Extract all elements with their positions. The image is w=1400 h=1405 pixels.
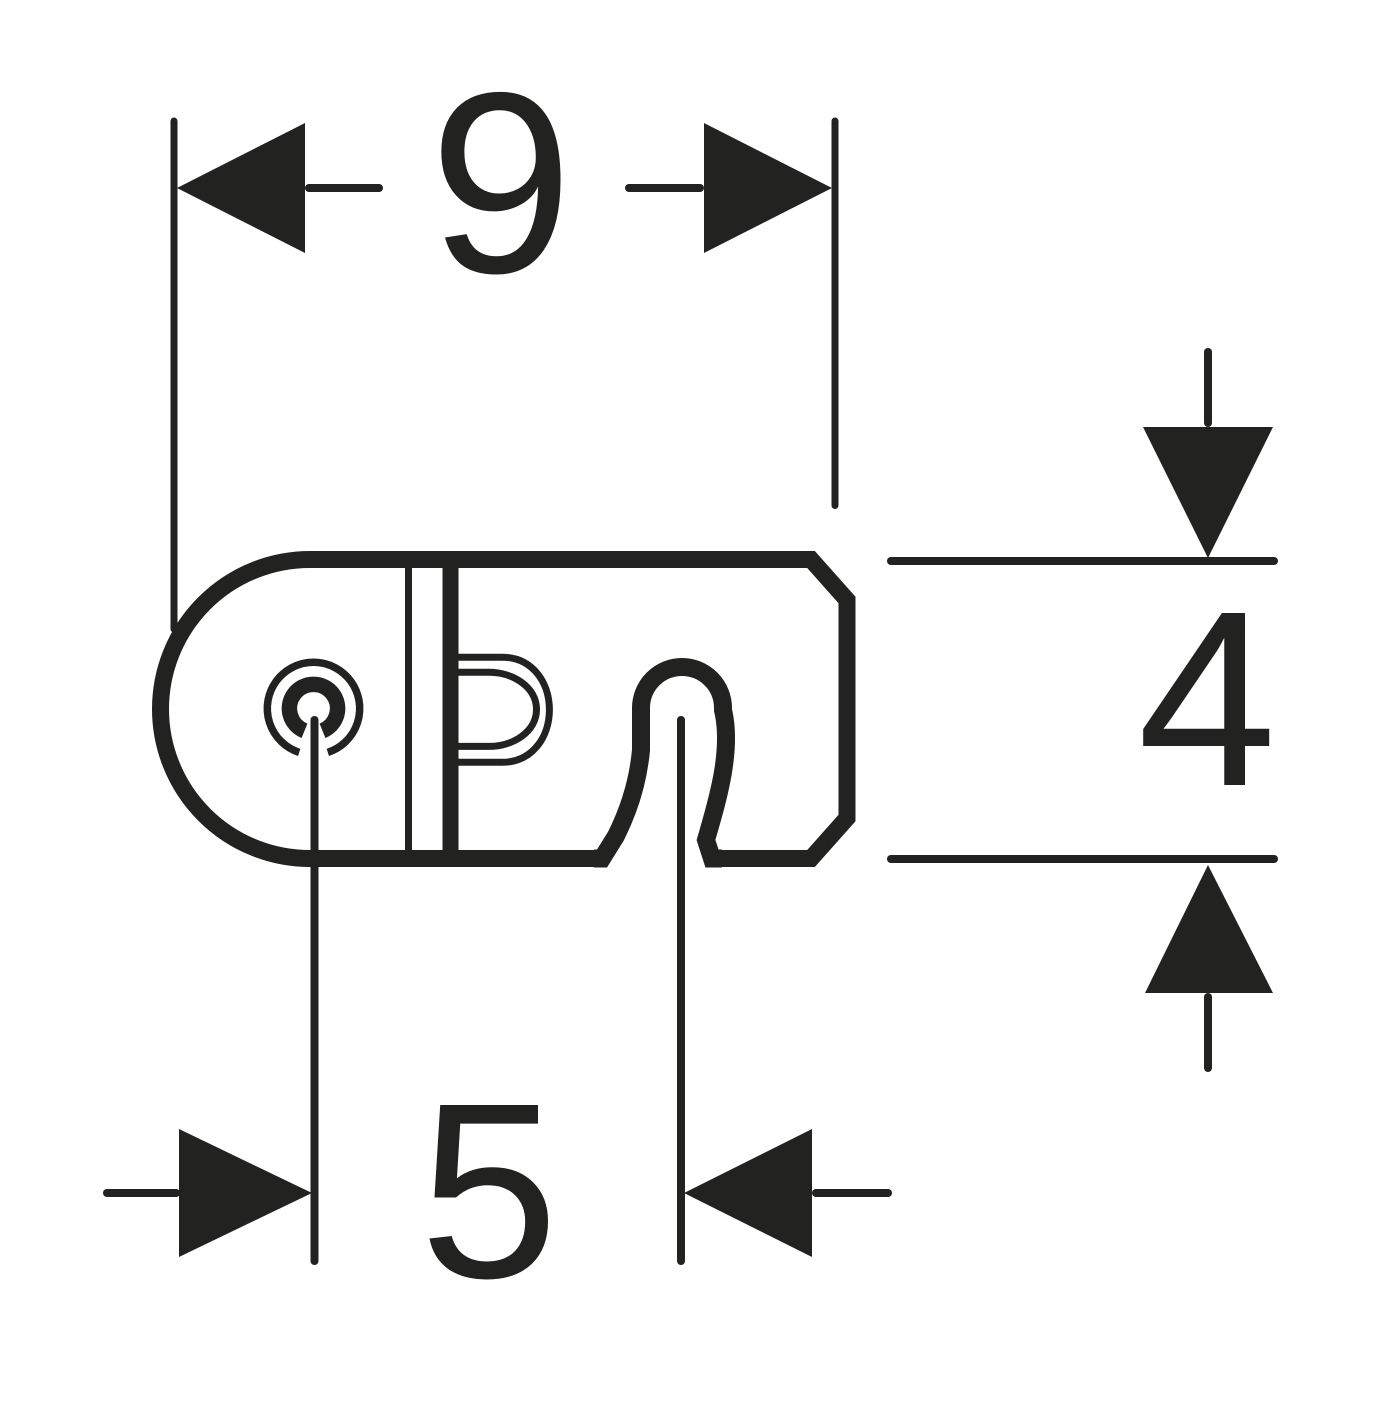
dim5 arrow right [684, 1129, 812, 1257]
svg-text:4: 4 [1137, 559, 1276, 838]
dim5 tail right [816, 1189, 888, 1197]
dim4 arrow down [1143, 427, 1273, 558]
dim5 tail left [107, 1189, 176, 1197]
svg-text:9: 9 [429, 38, 573, 327]
dim9 arrow right [704, 123, 832, 253]
section line thick [443, 553, 459, 865]
boss outer profile [452, 657, 549, 762]
dim9 arrow left [177, 123, 305, 253]
hole ring [289, 684, 337, 730]
dim4 reference line bottom [891, 855, 1274, 863]
svg-text:5: 5 [419, 1051, 558, 1330]
part outline [161, 560, 848, 859]
leader line hole [311, 720, 319, 1261]
dim5 arrow left [179, 1129, 312, 1257]
dim9 stub right [629, 184, 700, 192]
leader line notch [677, 720, 685, 1261]
keyhole slot [594, 667, 726, 859]
hole outer circle [267, 662, 359, 752]
dim4 reference line top [891, 557, 1274, 565]
dim4 arrow up stub [1204, 997, 1212, 1068]
dim9 extension line left [171, 121, 178, 629]
dim9 stub left [309, 184, 379, 192]
dim9 extension line right [832, 121, 839, 506]
section line thin [405, 553, 412, 865]
dim4 arrow up [1145, 865, 1273, 993]
dim4 arrow down stub [1204, 352, 1212, 423]
boss inner profile [452, 672, 537, 746]
